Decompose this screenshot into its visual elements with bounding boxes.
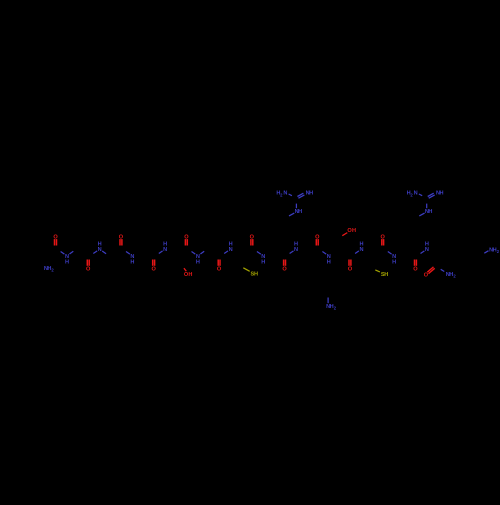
Ser side chain bond CB-OG (9) (342, 233, 347, 236)
svg-text:O: O (217, 267, 222, 273)
peptide bond C4-N4 (159, 251, 163, 254)
svg-text:N: N (294, 247, 298, 253)
svg-text:N: N (283, 190, 287, 196)
svg-text:H: H (65, 259, 69, 265)
svg-text:O: O (86, 267, 91, 273)
svg-text:O: O (424, 273, 429, 279)
double bond C9=O9 (315, 239, 317, 245)
double bond C1=O1 (54, 239, 56, 245)
svg-text:H: H (254, 272, 258, 278)
svg-text:H: H (428, 209, 432, 215)
svg-text:H: H (359, 242, 363, 248)
Lys side chain bond CE-NZ (12) (484, 251, 488, 254)
peptide bond C7-N7 (257, 252, 261, 255)
svg-text:H: H (392, 259, 396, 265)
svg-text:H: H (196, 259, 200, 265)
double bond C5=O5 (184, 239, 186, 245)
Arg1 bond NE-CD (289, 213, 294, 216)
peptide bond C12-N12 (421, 251, 425, 254)
double bond C3=O3 (119, 239, 121, 245)
svg-text:H: H (163, 242, 167, 248)
svg-text:H: H (439, 190, 443, 196)
svg-text:H: H (425, 242, 429, 248)
svg-text:H: H (130, 259, 134, 265)
svg-text:H: H (352, 228, 356, 234)
svg-text:H: H (98, 242, 102, 248)
peptide bond C5-N5 (192, 252, 196, 255)
Arg2 bond CZ-NH1 (419, 194, 422, 196)
Arg2 double bond CZ=NH2 (428, 193, 434, 196)
double bond C11=O11 (381, 239, 383, 245)
peptide bond C1-N1 (61, 252, 65, 255)
double bond C7=O7 (250, 239, 252, 245)
svg-text:H: H (384, 272, 388, 278)
Lys side chain bond CE-NZ (8) (327, 298, 329, 304)
svg-text:O: O (348, 267, 353, 273)
C-terminal amide double bond C=O (429, 268, 435, 273)
svg-text:H: H (188, 272, 192, 278)
svg-text:H: H (327, 259, 331, 265)
peptide bond C6-N6 (224, 251, 228, 254)
svg-text:N: N (359, 247, 363, 253)
peptide bond C3-N3 (126, 252, 130, 255)
svg-text:H: H (294, 242, 298, 248)
svg-text:O: O (152, 267, 157, 273)
double bond C12=O12 (415, 260, 417, 266)
peptide bond C9-N9 (322, 252, 326, 255)
double bond C10=O10 (350, 260, 352, 266)
C-terminal amide bond C-N (441, 269, 445, 271)
svg-text:N: N (229, 247, 233, 253)
svg-text:H: H (298, 209, 302, 215)
Ser side chain bond CB-OG (4) (184, 268, 186, 271)
double bond C6=O6 (219, 260, 221, 266)
svg-text:N: N (414, 190, 418, 196)
Arg1 bond NE-CZ (295, 204, 297, 209)
peptide bond C8-N8 (290, 251, 294, 254)
double bond C2=O2 (88, 260, 90, 266)
svg-text:H: H (229, 242, 233, 248)
bond N5-CA5 (200, 251, 204, 254)
peptide bond C11-N11 (388, 252, 392, 255)
svg-text:N: N (98, 247, 102, 253)
svg-text:H: H (261, 259, 265, 265)
Cys side chain bond CB-SG (10) (375, 270, 380, 272)
svg-text:N: N (425, 247, 429, 253)
svg-text:O: O (413, 267, 418, 273)
bond N1-CA1 (70, 251, 74, 254)
double bond C4=O4 (154, 260, 156, 266)
svg-text:O: O (282, 267, 287, 273)
Arg2 bond NE-CD (419, 213, 424, 216)
peptide bond C10-N10 (355, 251, 359, 254)
double bond C8=O8 (285, 260, 287, 266)
Arg1 double bond CZ=NH2 (297, 193, 303, 196)
Cys side chain bond CB-SG (6) (243, 268, 249, 272)
Arg1 bond CZ-NH1 (289, 194, 292, 196)
bond N2-CA2 (102, 251, 106, 254)
svg-text:N: N (163, 247, 167, 253)
Arg2 bond NE-CZ (426, 204, 428, 209)
peptide bond C2-N2 (93, 251, 97, 254)
svg-text:H: H (309, 190, 313, 196)
